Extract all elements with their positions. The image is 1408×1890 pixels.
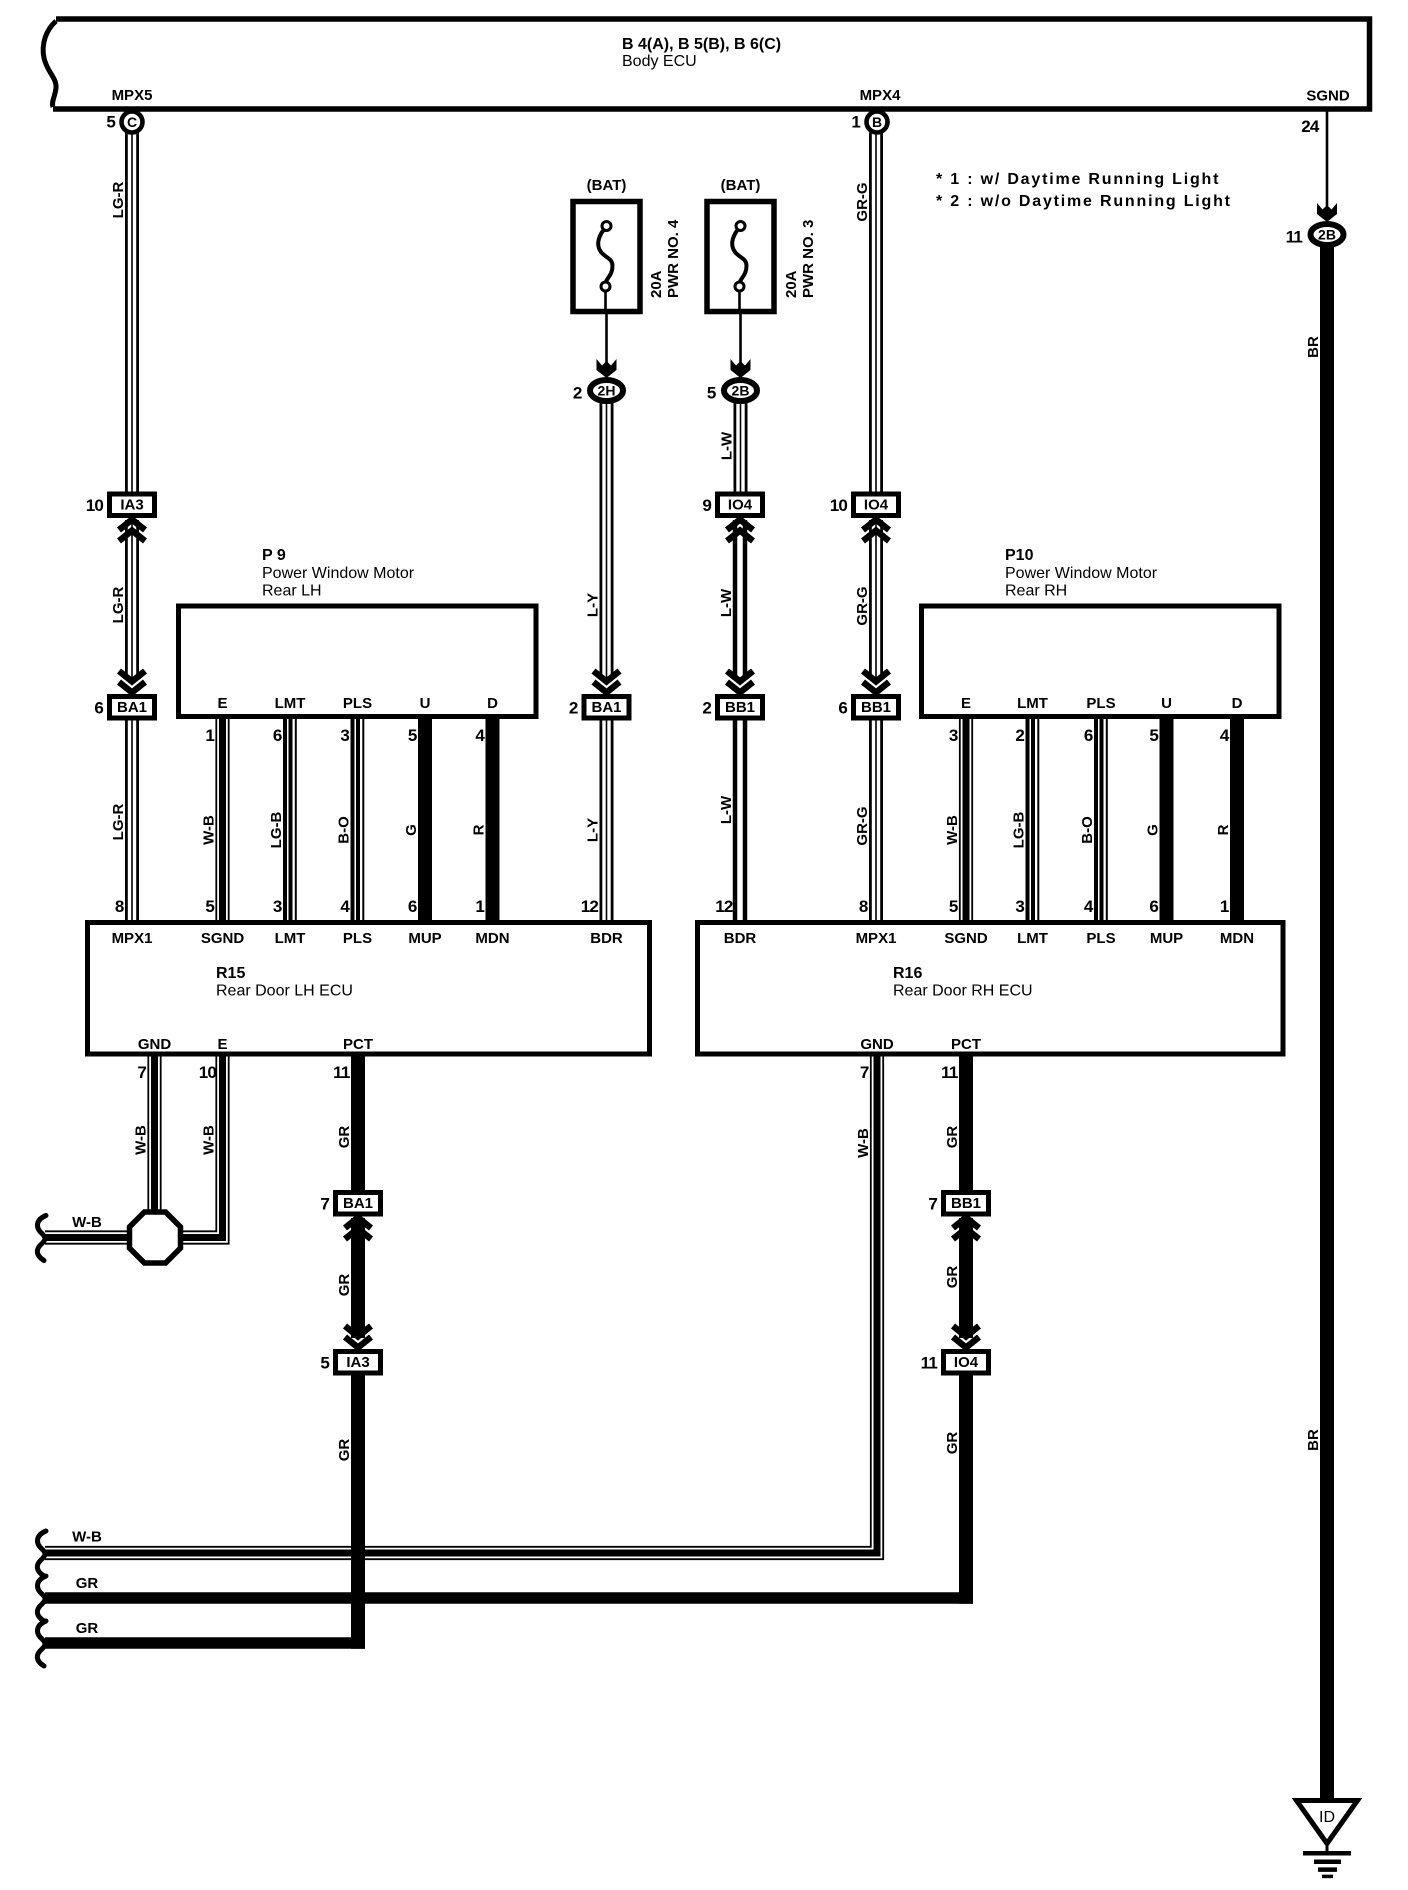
svg-text:1: 1 (205, 726, 214, 745)
wire W-B from left edge to junction (45, 1231, 135, 1243)
wire B-O P10 PLS to R16 PLS (1096, 719, 1107, 920)
svg-text:8: 8 (859, 897, 868, 916)
svg-text:C: C (127, 114, 137, 130)
svg-text:BA1: BA1 (343, 1195, 373, 1212)
svg-text:GR: GR (76, 1575, 99, 1592)
svg-text:4: 4 (1084, 897, 1094, 916)
wire W-B P9 E to R15 SGND (216, 719, 228, 920)
svg-text:PLS: PLS (343, 695, 372, 712)
wire B-O P9 PLS to R15 PLS (353, 719, 364, 920)
svg-text:12: 12 (715, 897, 733, 916)
connector pin 5 circle C (MPX5) (106, 112, 142, 133)
wire R P9 D to R15 MDN (486, 719, 500, 920)
svg-text:BB1: BB1 (951, 1195, 981, 1212)
svg-text:L-W: L-W (719, 431, 736, 460)
svg-text:PLS: PLS (1086, 930, 1115, 947)
svg-text:Rear RH: Rear RH (1005, 583, 1067, 600)
svg-text:GND: GND (860, 1036, 894, 1053)
svg-text:G: G (1145, 824, 1162, 836)
arrow up below BA1 pin 7 (345, 1218, 371, 1240)
svg-text:PWR NO. 3: PWR NO. 3 (800, 220, 817, 298)
wire GR IO4 pin 11 to left edge (45, 1376, 973, 1604)
svg-text:IA3: IA3 (346, 1354, 369, 1371)
svg-text:MPX1: MPX1 (112, 930, 153, 947)
svg-text:4: 4 (1220, 726, 1230, 745)
wire LG-R BA1 to R15 MPX1 (126, 721, 137, 921)
svg-text:LG-R: LG-R (110, 804, 127, 841)
connector BA1 pin 6 (94, 697, 154, 719)
svg-text:11: 11 (921, 1354, 938, 1373)
svg-text:W-B: W-B (72, 1214, 102, 1231)
wire W-B P10 E to R16 SGND (960, 719, 972, 920)
svg-text:12: 12 (581, 897, 599, 916)
svg-text:2H: 2H (598, 383, 616, 399)
svg-text:* 1 : w/ Daytime Running Light: * 1 : w/ Daytime Running Light (936, 171, 1220, 188)
svg-text:U: U (1161, 695, 1172, 712)
svg-text:6: 6 (94, 699, 103, 718)
svg-text:BDR: BDR (724, 930, 757, 947)
arrow down above BB1 pin 2 (727, 671, 753, 693)
svg-text:1: 1 (475, 897, 484, 916)
wire R P10 D to R16 MDN (1230, 719, 1244, 920)
connector IO4 pin 10 (830, 494, 899, 516)
ground ID (1297, 1801, 1358, 1877)
wire LG-B P10 LMT to R16 LMT (1028, 719, 1039, 920)
svg-text:D: D (1232, 695, 1243, 712)
connector IO4 pin 11 (921, 1352, 989, 1374)
connector 2B pin 11 (SGND) (1286, 224, 1344, 247)
svg-text:2: 2 (569, 699, 578, 718)
svg-text:GR: GR (944, 1266, 961, 1289)
svg-text:6: 6 (838, 699, 847, 718)
svg-text:LG-R: LG-R (110, 587, 127, 624)
svg-text:B-O: B-O (336, 816, 353, 844)
svg-text:6: 6 (273, 726, 282, 745)
svg-text:10: 10 (199, 1063, 217, 1082)
wire GR R15 PCT to BA1 pin 7 (351, 1057, 365, 1191)
svg-text:2B: 2B (1318, 227, 1336, 243)
svg-text:B-O: B-O (1079, 816, 1096, 844)
svg-text:B 4(A), B 5(B), B 6(C): B 4(A), B 5(B), B 6(C) (622, 36, 781, 53)
svg-text:BR: BR (1305, 1429, 1322, 1451)
arrow down above IA3 pin 5 (345, 1326, 371, 1348)
svg-text:(BAT): (BAT) (587, 177, 627, 194)
connector BB1 pin 7 (928, 1193, 988, 1215)
svg-text:7: 7 (928, 1195, 937, 1214)
svg-text:MPX1: MPX1 (856, 930, 897, 947)
svg-text:Power Window Motor: Power Window Motor (1005, 565, 1158, 582)
svg-text:GND: GND (138, 1036, 172, 1053)
continuation mark W-B (junction row) (37, 1216, 46, 1261)
svg-text:IA3: IA3 (120, 497, 143, 514)
wire SGND pin 24 to connector 2B (1326, 109, 1329, 206)
svg-text:11: 11 (1286, 228, 1303, 247)
wire L-Y 2H to BA1 pin 2 (601, 401, 612, 680)
svg-text:W-B: W-B (944, 815, 961, 845)
svg-text:R: R (1215, 824, 1232, 835)
svg-text:4: 4 (340, 897, 350, 916)
arrow up below IO4 pin 9 (727, 520, 753, 542)
svg-text:W-B: W-B (855, 1128, 872, 1158)
svg-text:5: 5 (320, 1354, 329, 1373)
svg-text:E: E (961, 695, 971, 712)
ECU R15 Rear Door LH box (88, 923, 650, 1055)
svg-text:7: 7 (320, 1195, 329, 1214)
svg-text:SGND: SGND (1306, 88, 1350, 105)
svg-text:E: E (217, 1036, 227, 1053)
svg-text:SGND: SGND (944, 930, 988, 947)
connector BB1 pin 2 (702, 697, 762, 719)
svg-text:MDN: MDN (1220, 930, 1254, 947)
wire L-W 2B to IO4 pin 9 (735, 401, 746, 492)
svg-text:6: 6 (1084, 726, 1093, 745)
svg-text:Rear Door LH ECU: Rear Door LH ECU (216, 983, 353, 1000)
svg-text:7: 7 (137, 1063, 146, 1082)
svg-text:PLS: PLS (343, 930, 372, 947)
arrow into connector 2B (731, 359, 751, 378)
svg-text:8: 8 (115, 897, 124, 916)
svg-text:5: 5 (205, 897, 214, 916)
svg-text:SGND: SGND (201, 930, 245, 947)
Body ECU box (43, 19, 1369, 109)
wire LG-R IA3 to BA1 (126, 520, 137, 680)
svg-text:L-W: L-W (718, 588, 735, 617)
wire L-W IO4 to BB1 pin 2 (735, 520, 745, 680)
arrow into connector 2H (597, 359, 617, 378)
svg-text:24: 24 (1301, 117, 1320, 136)
wire G P9 U to R15 MUP (418, 719, 432, 920)
svg-text:LMT: LMT (275, 695, 306, 712)
svg-text:2: 2 (1015, 726, 1024, 745)
svg-text:W-B: W-B (72, 1529, 102, 1546)
wire LG-B P9 LMT to R15 LMT (285, 719, 296, 920)
svg-text:D: D (487, 695, 498, 712)
svg-text:GR-G: GR-G (854, 806, 871, 845)
svg-text:LG-B: LG-B (1011, 812, 1028, 849)
svg-text:LG-R: LG-R (110, 182, 127, 219)
svg-text:20A: 20A (783, 270, 800, 298)
power window motor P9 box (179, 547, 537, 717)
svg-text:G: G (403, 824, 420, 836)
wire fuse1 to connector 2H (605, 314, 608, 364)
svg-text:3: 3 (340, 726, 349, 745)
svg-text:R16: R16 (893, 965, 922, 982)
svg-text:* 2 : w/o Daytime Running Ligh: * 2 : w/o Daytime Running Light (936, 193, 1232, 210)
svg-text:GR: GR (944, 1126, 961, 1149)
svg-text:2: 2 (702, 699, 711, 718)
wire G P10 U to R16 MUP (1160, 719, 1174, 920)
svg-text:GR: GR (76, 1620, 99, 1637)
connector pin 1 circle B (MPX4) (851, 112, 887, 133)
svg-text:GR: GR (944, 1432, 961, 1455)
wire GR-G BB1 to R16 MPX1 (870, 721, 881, 921)
svg-text:20A: 20A (648, 270, 665, 298)
continuation mark GR (second) (37, 1621, 46, 1666)
svg-text:PLS: PLS (1086, 695, 1115, 712)
wire fuse2 to connector 2B (739, 314, 742, 364)
svg-text:PCT: PCT (343, 1036, 373, 1053)
svg-text:IO4: IO4 (954, 1354, 979, 1371)
wire GR R16 PCT to BB1 pin 7 (959, 1057, 973, 1191)
svg-text:(BAT): (BAT) (721, 177, 761, 194)
svg-text:W-B: W-B (133, 1125, 150, 1155)
svg-text:LMT: LMT (1017, 695, 1048, 712)
svg-text:W-B: W-B (201, 1125, 218, 1155)
connector IO4 pin 9 (702, 494, 762, 516)
svg-text:6: 6 (1149, 897, 1158, 916)
svg-text:ID: ID (1319, 1809, 1335, 1826)
fuse 20A PWR NO. 3 (707, 177, 817, 314)
arrow up below BB1 pin 7 (953, 1218, 979, 1240)
svg-text:Body ECU: Body ECU (622, 53, 697, 70)
svg-text:B: B (872, 114, 882, 130)
svg-text:LMT: LMT (1017, 930, 1048, 947)
arrow up below IA3 (119, 520, 145, 542)
svg-text:PWR NO. 4: PWR NO. 4 (665, 219, 682, 298)
svg-text:9: 9 (702, 496, 711, 515)
arrow down above IO4 pin 11 (953, 1326, 979, 1348)
svg-text:GR-G: GR-G (854, 586, 871, 625)
svg-text:2B: 2B (732, 383, 750, 399)
svg-text:L-Y: L-Y (585, 593, 602, 617)
svg-text:10: 10 (830, 496, 848, 515)
connector BA1 pin 7 (320, 1193, 380, 1215)
arrow into connector 2B (SGND) (1317, 203, 1337, 222)
junction octagon (W-B splice) (130, 1212, 181, 1263)
svg-text:GR: GR (336, 1126, 353, 1149)
svg-text:IO4: IO4 (728, 497, 753, 514)
fuse 20A PWR NO. 4 (573, 177, 682, 314)
svg-text:L-W: L-W (718, 795, 735, 824)
svg-text:Power Window Motor: Power Window Motor (262, 565, 415, 582)
svg-text:3: 3 (273, 897, 282, 916)
connector 2H pin 2 (573, 380, 623, 403)
svg-text:MUP: MUP (408, 930, 441, 947)
wire L-Y BA1 to R15 BDR (601, 721, 612, 921)
svg-text:PCT: PCT (951, 1036, 981, 1053)
wire BR SGND to ground (1320, 245, 1334, 1800)
svg-text:IO4: IO4 (864, 497, 889, 514)
svg-text:LG-B: LG-B (268, 812, 285, 849)
svg-text:BB1: BB1 (725, 699, 755, 716)
svg-text:5: 5 (1149, 726, 1158, 745)
arrow down above BA1 pin 6 (119, 671, 145, 693)
wire GR-G IO4 to BB1 (870, 520, 881, 680)
svg-text:GR: GR (336, 1439, 353, 1462)
wire L-W BB1 to R16 BDR (735, 721, 745, 921)
wire GR BA1 to IA3 (351, 1218, 365, 1338)
svg-text:4: 4 (475, 726, 485, 745)
svg-text:U: U (420, 695, 431, 712)
svg-text:E: E (217, 695, 227, 712)
svg-text:BA1: BA1 (117, 699, 147, 716)
svg-text:MUP: MUP (1150, 930, 1183, 947)
svg-text:W-B: W-B (201, 815, 218, 845)
svg-text:BA1: BA1 (591, 699, 621, 716)
svg-text:P 9: P 9 (262, 547, 286, 564)
svg-text:7: 7 (860, 1063, 869, 1082)
connector BA1 pin 2 (569, 697, 629, 719)
wire LG-R circle C to IA3 (126, 133, 137, 492)
svg-text:11: 11 (941, 1063, 958, 1082)
wire GR BB1 to IO4 (959, 1218, 973, 1338)
svg-text:6: 6 (408, 897, 417, 916)
svg-text:5: 5 (949, 897, 958, 916)
svg-text:3: 3 (1015, 897, 1024, 916)
wire GR IA3 pin 5 to left edge (45, 1376, 365, 1649)
svg-text:BDR: BDR (590, 930, 623, 947)
svg-text:LMT: LMT (275, 930, 306, 947)
svg-text:5: 5 (408, 726, 417, 745)
svg-text:10: 10 (86, 496, 104, 515)
svg-text:11: 11 (333, 1063, 350, 1082)
continuation mark GR (first) (37, 1576, 46, 1621)
svg-text:MPX5: MPX5 (112, 87, 153, 104)
svg-text:1: 1 (1220, 897, 1229, 916)
svg-text:MPX4: MPX4 (860, 87, 902, 104)
svg-text:5: 5 (106, 113, 115, 132)
connector IA3 pin 5 (320, 1352, 380, 1374)
svg-text:L-Y: L-Y (585, 818, 602, 842)
svg-text:BR: BR (1305, 336, 1322, 358)
wire W-B R15 GND to junction (148, 1057, 160, 1213)
wire W-B R16 GND to left edge (45, 1057, 883, 1560)
svg-text:3: 3 (949, 726, 958, 745)
svg-text:R: R (471, 824, 488, 835)
svg-text:Rear LH: Rear LH (262, 583, 322, 600)
connector IA3 pin 10 (86, 494, 155, 516)
arrow down above BA1 pin 2 (594, 671, 620, 693)
svg-text:5: 5 (707, 384, 716, 403)
svg-text:BB1: BB1 (861, 699, 891, 716)
svg-text:1: 1 (851, 113, 860, 132)
power window motor P10 box (922, 547, 1280, 717)
arrow down above BB1 pin 6 (863, 671, 889, 693)
svg-text:MDN: MDN (475, 930, 509, 947)
svg-text:GR-G: GR-G (854, 182, 871, 221)
svg-text:P10: P10 (1005, 547, 1034, 564)
wire GR-G circle B to IO4 (870, 133, 881, 492)
continuation mark W-B (bottom) (37, 1531, 46, 1576)
connector BB1 pin 6 (838, 697, 898, 719)
svg-text:R15: R15 (216, 965, 245, 982)
svg-text:Rear Door RH ECU: Rear Door RH ECU (893, 983, 1033, 1000)
svg-text:GR: GR (336, 1274, 353, 1297)
arrow up below IO4 pin 10 (863, 520, 889, 542)
wire W-B R15 E to junction (181, 1057, 229, 1244)
svg-text:2: 2 (573, 384, 582, 403)
ECU R16 Rear Door RH box (698, 923, 1284, 1055)
connector 2B pin 5 (707, 380, 757, 403)
